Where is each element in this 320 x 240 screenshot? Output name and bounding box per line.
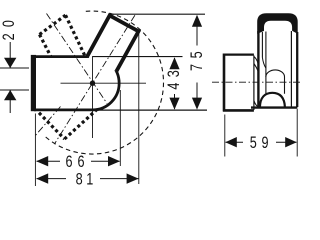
dashed swivel range arc	[45, 11, 163, 154]
crosshair vertical through center	[92, 56, 94, 138]
dimension 20 extension line top	[0, 67, 29, 69]
svg-text:5: 5	[250, 133, 257, 152]
holder body top edge	[34, 55, 93, 58]
svg-text:6: 6	[65, 152, 72, 171]
holder body semicircular bulge	[93, 57, 120, 110]
svg-text:5: 5	[187, 51, 206, 58]
side view wall stub right edge	[253, 56, 255, 111]
side view centerline dash-dot	[212, 81, 300, 83]
dimension 66 line	[37, 160, 61, 162]
dimension 43 top extension line	[93, 56, 183, 58]
cylinder inner left wall	[265, 32, 267, 78]
cylinder outer right wall	[296, 32, 298, 107]
svg-text:3: 3	[164, 70, 183, 77]
dimension 75 top extension line	[110, 13, 205, 15]
dimension 75 line	[196, 16, 198, 46]
side view wall stub left edge	[223, 54, 226, 112]
holder tube (solid, tilted)	[87, 16, 139, 72]
cylinder inner-left line	[261, 32, 263, 58]
dimension 66 extension line right	[119, 90, 121, 166]
dimension 20 extension line bottom	[0, 89, 29, 91]
center pivot dot	[90, 81, 95, 86]
dimension 81 extension line right	[138, 33, 140, 184]
crosshair horizontal through center	[61, 82, 147, 84]
dotted tube swivel position lower-left	[39, 110, 97, 139]
bottom extension line (43/75)	[93, 109, 207, 111]
side view wall stub top edge	[223, 53, 254, 55]
cylinder inner right wall	[290, 31, 292, 107]
dash-dot axis line upper-left tube	[47, 14, 108, 104]
holder body bottom edge	[34, 109, 93, 112]
saddle dome	[260, 93, 285, 107]
dimension 66/81 extension line left	[34, 114, 36, 187]
dotted tube swivel position upper-left	[40, 15, 86, 56]
dimension 81 line	[37, 178, 67, 180]
cylinder bottom edge	[251, 106, 297, 108]
side view wall stub bottom edge	[223, 109, 254, 112]
svg-text:4: 4	[164, 83, 183, 90]
neck fillet bottom curve	[254, 101, 258, 107]
dimension 43 line	[174, 58, 176, 66]
svg-text:0: 0	[0, 20, 19, 27]
svg-text:8: 8	[76, 170, 83, 189]
dash-dot stub lower-left	[35, 107, 61, 137]
holder body wall plate (left bar)	[31, 55, 36, 111]
svg-text:9: 9	[261, 133, 268, 152]
svg-text:1: 1	[86, 170, 93, 189]
svg-text:2: 2	[0, 33, 19, 40]
cylinder rim (filled band)	[257, 13, 298, 34]
neck fillet top curves	[254, 57, 259, 68]
svg-text:7: 7	[187, 64, 206, 71]
dimension 20 line+arrows	[9, 42, 11, 68]
dimension 59 extension line left	[224, 115, 226, 157]
dash-dot axis line of tube	[54, 15, 134, 144]
cylinder outer left wall	[257, 31, 259, 107]
slot arch	[266, 70, 285, 94]
dimension 59 line	[226, 141, 244, 143]
dimension 59 extension line right	[296, 109, 298, 157]
